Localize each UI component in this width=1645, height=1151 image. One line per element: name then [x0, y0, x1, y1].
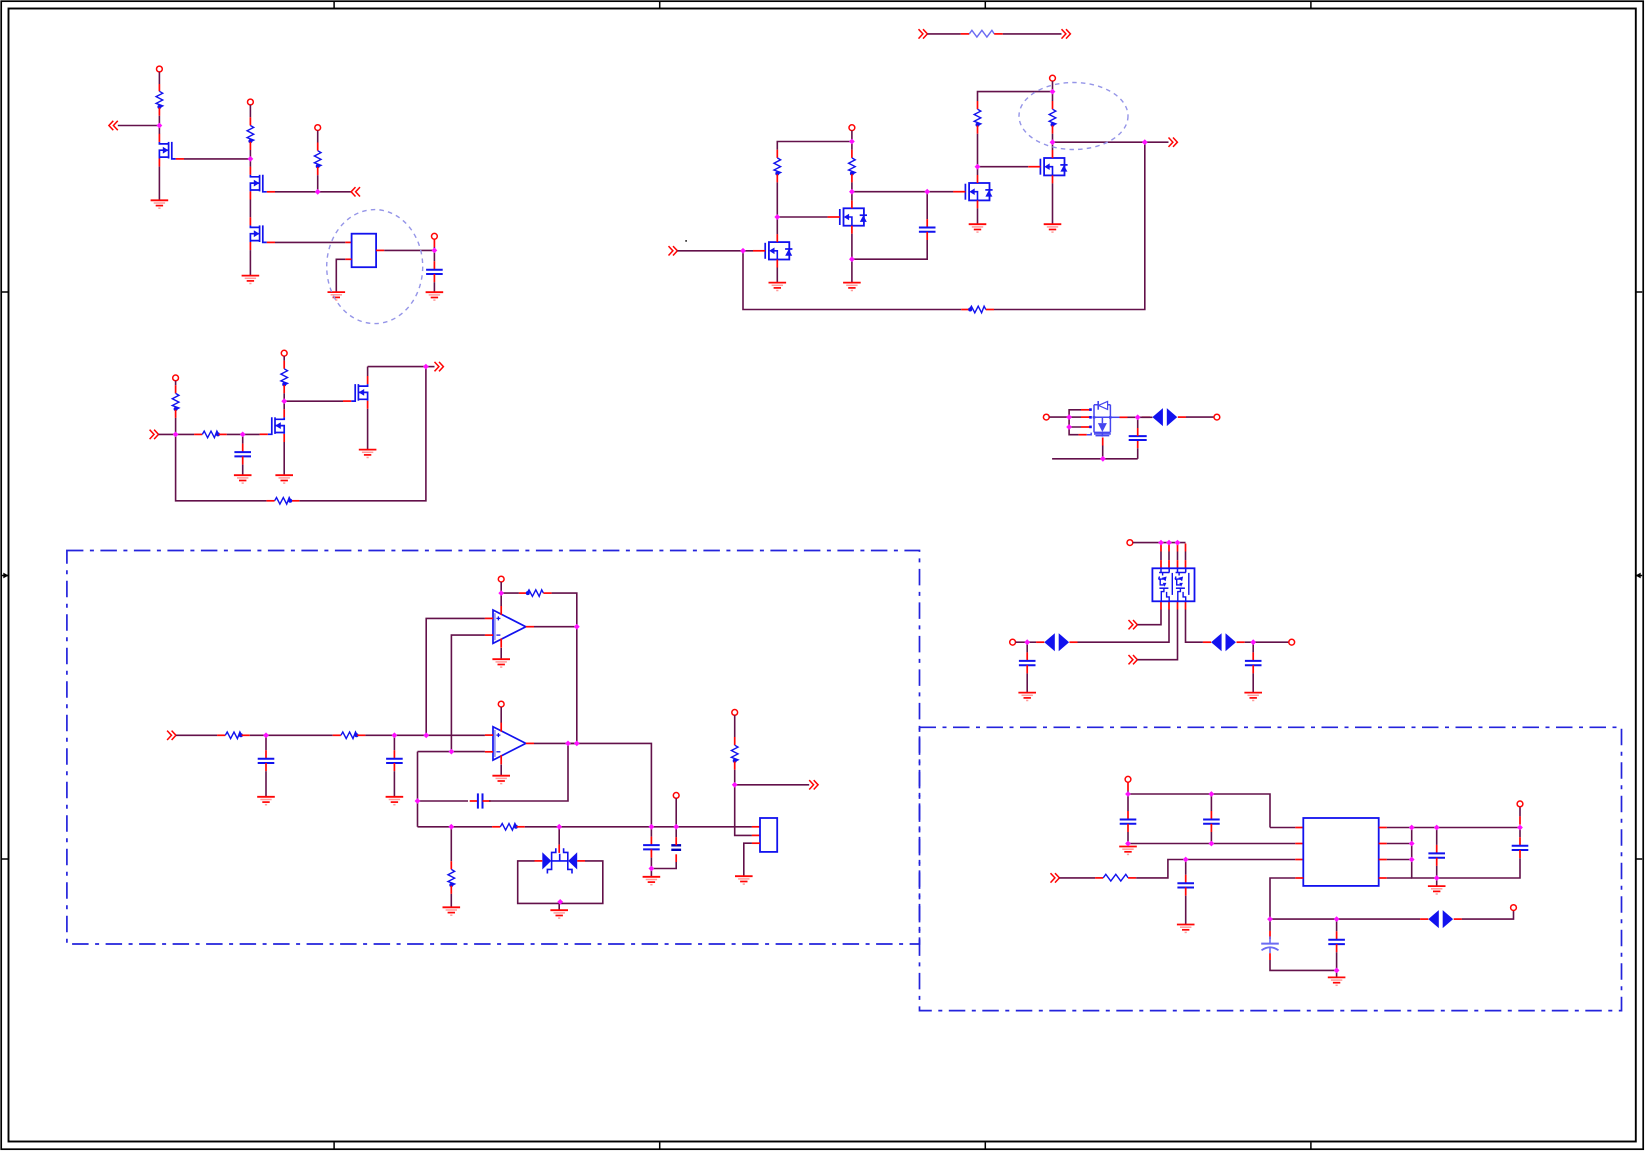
wire node B5 to ground: [851, 259, 853, 282]
wire node E4 to U3 vcc: [500, 593, 502, 606]
dash-dot box E: [67, 551, 920, 945]
ground: [443, 907, 461, 915]
wire R5 to node B4: [851, 182, 853, 191]
wire bus3: [1387, 877, 1412, 879]
wire C5 to ground: [265, 771, 267, 796]
pin stub: [291, 500, 299, 502]
junction node E12: [673, 824, 679, 830]
ground: [151, 200, 169, 208]
wire U4 gnd: [500, 765, 502, 776]
transistor Q8: [260, 409, 285, 442]
junction node G4: [1166, 540, 1172, 546]
junction node E10a: [649, 824, 655, 830]
pin stub: [1127, 824, 1129, 832]
wire Q9 source to ground: [367, 409, 369, 450]
pin stub: [194, 433, 202, 435]
ground: [492, 776, 510, 784]
junction node F5: [1334, 916, 1340, 922]
wire C1 to ground: [433, 282, 435, 292]
pin stub: [1137, 440, 1139, 448]
wire node G2 to port P13: [1253, 641, 1289, 643]
pin stub: [483, 800, 491, 802]
resistor R13: [225, 732, 243, 739]
wire D4 to node G1: [1027, 641, 1036, 643]
port chevron IN6: [1129, 620, 1138, 629]
wire R19 to U6 pin L3: [1136, 860, 1295, 878]
wire C7 to node E7: [489, 743, 577, 801]
U7 bottom pin stubs: [1161, 601, 1186, 609]
wire C15b to node F9: [1437, 858, 1520, 878]
pin stub: [961, 33, 970, 35]
wire Q6 source to ground: [977, 208, 979, 224]
junction node E9: [556, 824, 562, 830]
pin stub: [1269, 931, 1271, 939]
wire to U6 pin L1: [1270, 827, 1295, 829]
pin stub: [926, 232, 928, 240]
wire C16 to ground: [1026, 673, 1028, 692]
ground: [386, 797, 404, 805]
junction node E8: [448, 824, 454, 830]
port P14: [498, 576, 504, 582]
wire zener loop right: [559, 861, 603, 904]
wire node E10 to C9 bottom: [651, 862, 676, 869]
junction node C2: [240, 432, 246, 438]
ground: [735, 876, 753, 884]
wire Q2 source to Q3 drain: [249, 200, 251, 218]
ground: [275, 475, 293, 483]
wire IN5 to R20: [927, 33, 960, 35]
wire P9 to node D1: [1049, 416, 1069, 418]
wire C11 top: [1210, 794, 1212, 811]
wire node B9 to Q7 drain: [1052, 142, 1054, 150]
wire R18 to node E11: [734, 770, 736, 785]
resistor R14: [341, 732, 359, 739]
wire C2 top lead: [926, 192, 928, 219]
junction node E5: [574, 624, 580, 630]
port chevron IN5: [919, 29, 928, 38]
dash-dot box F: [920, 727, 1622, 1010]
ground: [1244, 693, 1262, 701]
ground: [234, 475, 252, 483]
wire C17 to ground: [1252, 673, 1254, 692]
junction node F8: [1517, 825, 1523, 831]
port chevron IN9: [1051, 873, 1060, 882]
wire node C1 to R10: [176, 433, 195, 435]
transistor Q9: [343, 376, 368, 409]
wire R11 to node C3n: [283, 393, 285, 401]
capacitor C12: [1177, 883, 1194, 887]
wire C12 to ground: [1185, 896, 1187, 925]
junction node B7: [1050, 89, 1056, 95]
junction node A4: [432, 248, 438, 254]
ground: [769, 283, 787, 291]
diode pair D4: [1044, 633, 1069, 651]
wire loop lower b: [1069, 427, 1079, 435]
pin stub: [249, 117, 251, 125]
port P4: [432, 233, 438, 239]
resistor R20: [969, 30, 994, 37]
junction node D2: [1100, 456, 1106, 462]
wire R14 to node E2: [365, 734, 394, 736]
transistor Q3: [250, 217, 275, 250]
pin stub: [1210, 824, 1212, 832]
resistor R7: [1049, 109, 1056, 127]
zener pair D2: [542, 848, 577, 873]
capacitor C9: [671, 845, 681, 850]
junction node E13: [557, 899, 563, 905]
wire P3 to R3: [317, 131, 319, 143]
resistor R15: [526, 590, 544, 597]
U6 right pin stubs: [1379, 828, 1387, 879]
port chevron IN1: [109, 121, 118, 130]
wire node B7 to R6 branch: [978, 92, 1053, 101]
op-amp U4: [485, 722, 534, 764]
wire node F5 to D3: [1337, 918, 1421, 920]
wire node E6 segment: [418, 751, 485, 753]
capacitor C16b: [1512, 846, 1529, 850]
pin stub: [242, 456, 244, 464]
wire P8 to R11: [283, 356, 285, 361]
wire node B1 down to bottom rail: [743, 251, 961, 310]
junction node E4: [498, 590, 504, 596]
ground: [1328, 977, 1346, 985]
resistor R18: [731, 745, 738, 763]
junction node F7a: [1409, 825, 1415, 831]
wire Q3 gate to U1 pin1: [275, 241, 345, 243]
port P15: [498, 701, 504, 707]
resistor R3: [314, 151, 321, 169]
pin stub: [1069, 641, 1077, 643]
pin stub: [1127, 782, 1129, 790]
wire R10 to node C2: [227, 433, 243, 435]
U2 pin pads: [1089, 408, 1092, 428]
junction node D4: [1135, 414, 1141, 420]
pin stub: [1420, 918, 1428, 920]
wire Q1 source to ground: [158, 167, 160, 200]
capacitor C16: [1019, 661, 1036, 665]
resistor R19: [1103, 874, 1128, 881]
wire node E4 to R15: [501, 592, 519, 594]
pin stub: [1137, 428, 1139, 436]
port P11: [1127, 540, 1133, 546]
wire C9 top to main rail: [675, 827, 677, 837]
pin stub: [470, 800, 478, 802]
wire Q7 source to ground: [1052, 183, 1054, 224]
IC U2 protection device: [1087, 401, 1112, 437]
wire IN1 to node A1: [118, 125, 160, 127]
pin stub: [266, 500, 274, 502]
wire main rail3: [525, 826, 752, 828]
port P7: [173, 375, 179, 381]
pin stub U6 pin L3: [1295, 859, 1303, 861]
wire node G2 to C17: [1252, 642, 1254, 652]
wire U7 pin2 to left rail: [1078, 610, 1170, 643]
pin stub: [393, 750, 395, 758]
pin stub: [1237, 641, 1245, 643]
diode pair D5: [1211, 633, 1236, 651]
junction node F1b: [1209, 791, 1215, 797]
wire C8 top: [650, 827, 652, 837]
pin stub: [1252, 665, 1254, 673]
junction node B6: [1142, 139, 1148, 145]
wire D5 to node G2: [1245, 641, 1254, 643]
junction node B4b: [924, 189, 930, 195]
pin stub: [265, 750, 267, 758]
wire node E9 to zener tap: [558, 827, 560, 845]
wire R2 to node A2: [249, 150, 251, 159]
pin stub: [175, 410, 177, 418]
wire C4 to node D4: [1137, 417, 1139, 428]
wire bottom rail to node C1: [176, 434, 267, 500]
wire node C3n to Q9 gate: [284, 400, 343, 402]
junction node D1b: [1066, 424, 1072, 430]
pin stub U6 pin L4: [1295, 877, 1303, 879]
junction node F7c: [1409, 857, 1415, 863]
wire node F7 to C15a: [1436, 828, 1438, 845]
wire Q3 source to ground: [249, 250, 251, 275]
capacitor C7: [478, 793, 483, 808]
wire U3 gnd: [500, 648, 502, 659]
wire R7 to node B9: [1052, 134, 1054, 143]
wire node D3 up to C4: [1137, 448, 1139, 459]
resistor R8: [968, 306, 986, 313]
pin stub: [1269, 953, 1271, 960]
pin stub: [345, 241, 351, 243]
ground: [550, 910, 568, 918]
wire U6 pin L4 to node F4: [1270, 878, 1295, 919]
port P3: [315, 125, 321, 131]
pin stub left: [535, 860, 543, 862]
dashed ellipse highlight A: [327, 210, 423, 324]
wire P18 to node F1: [1127, 790, 1129, 794]
port P2: [248, 99, 254, 105]
wire bus vertical: [1412, 828, 1437, 879]
wire node E11 to OUT4: [735, 784, 810, 786]
pin stub: [1178, 416, 1186, 418]
resistor R10: [202, 431, 220, 438]
wire Q1 gate to node A2: [184, 158, 250, 160]
wire node B2 to R5: [851, 142, 853, 150]
junction node E7: [574, 741, 580, 747]
wire U1 out to node A4: [384, 249, 434, 251]
pin stub: [1436, 858, 1438, 866]
pin stub: [1095, 877, 1103, 879]
wire zener tap to ground: [558, 903, 560, 910]
wire Q9 drain to top rail: [367, 367, 369, 376]
pin stub: [1336, 931, 1338, 939]
wire node E2 to C6: [393, 735, 395, 750]
wire node E2 to node E3: [394, 734, 426, 736]
pin stub: [242, 444, 244, 452]
resistor R9: [172, 393, 179, 411]
pin stub: [1185, 888, 1187, 896]
port P6: [1050, 75, 1056, 81]
pin stub: [986, 309, 994, 311]
wire U5 pin3 to ground: [744, 843, 752, 876]
pin stub: [357, 734, 365, 736]
wire node F4 to C13: [1269, 919, 1271, 931]
resistor R11: [281, 369, 288, 387]
pin stub: [219, 433, 227, 435]
wire C6 to ground: [393, 771, 395, 796]
pin stub: [1026, 665, 1028, 673]
wire node B3 to Q5 gate: [777, 216, 827, 218]
pin stub: [1336, 944, 1338, 952]
junction node E2: [392, 732, 398, 738]
pin stub: [158, 108, 160, 116]
pin stub U1 out: [376, 249, 384, 251]
junction node F1: [1125, 791, 1131, 797]
resistor R17: [448, 869, 455, 887]
junction node A3: [315, 189, 321, 195]
pin stub: [543, 592, 551, 594]
ground: [643, 877, 661, 885]
pin stub: [249, 142, 251, 150]
wire node F1 to C10: [1127, 794, 1129, 811]
diode pair D1: [1152, 408, 1177, 426]
wire P2 to R2: [249, 105, 251, 117]
pin stub: [675, 854, 677, 862]
wire node F8 up: [1519, 807, 1521, 817]
pin stub: [393, 763, 395, 771]
wire node C4 down to bottom rail: [299, 367, 426, 501]
pin stub: [333, 734, 341, 736]
pin stub: [450, 886, 452, 894]
junction node E6b: [415, 798, 421, 804]
pin stub U5 pin3: [752, 842, 760, 844]
wire P6 to node B7: [1052, 81, 1054, 92]
pin stub: [734, 762, 736, 770]
port P18: [1125, 776, 1131, 782]
wire U3 out to node E5: [534, 626, 577, 628]
ground: [359, 450, 377, 458]
pin stub U5 pin2: [752, 834, 760, 836]
wire node E10 to ground: [650, 869, 652, 877]
wire node G1 to C16: [1026, 642, 1028, 652]
wire node C2 to C3: [242, 434, 244, 443]
transistor Q1: [159, 134, 184, 167]
ground: [1044, 224, 1062, 232]
junction node B9: [1050, 139, 1056, 145]
wire node A1 to Q1 drain: [158, 126, 160, 135]
port P16: [673, 793, 679, 799]
pin stub: [450, 861, 452, 869]
junction node B1: [740, 248, 746, 254]
pin stub: [1519, 850, 1521, 858]
wire node F6 to ground: [1336, 970, 1338, 977]
ground: [969, 224, 987, 232]
pin stub: [242, 734, 250, 736]
wire bottom rail D: [1052, 458, 1138, 460]
pin stub: [1519, 816, 1521, 824]
port chevron IN4: [150, 430, 159, 439]
wire C14 branch: [1336, 919, 1338, 931]
pin stub U5 pin1: [752, 826, 760, 828]
pin stub: [1142, 416, 1150, 418]
wire R3 to node A3: [317, 175, 319, 192]
port chevron OUT2: [435, 362, 444, 371]
wire P16 to main rail: [675, 798, 677, 827]
stray dot artifact: [685, 240, 687, 242]
port chevron OUT3: [1062, 29, 1071, 38]
pin stub: [1079, 434, 1087, 436]
wire IN7 to U7 pin3: [1137, 610, 1177, 660]
wire node F1 rail: [1128, 794, 1270, 828]
junction node G5: [1175, 540, 1181, 546]
pin stub: [851, 174, 853, 182]
wire loop lower a: [1069, 417, 1081, 427]
capacitor C10: [1120, 820, 1137, 824]
pin stub: [1252, 652, 1254, 660]
wire P15 to U4 vcc: [500, 707, 502, 723]
junction node G1: [1024, 639, 1030, 645]
IC U5: [760, 818, 777, 852]
port P19: [1511, 905, 1517, 911]
transistor Q5: [828, 200, 867, 233]
junction node E10: [649, 866, 655, 872]
wire IN8 to R13: [176, 734, 217, 736]
pin stub: [175, 385, 177, 393]
IC U7 dual mosfet pack: [1152, 568, 1194, 601]
wire Q5 source to node B5: [851, 234, 853, 260]
wire node D1 to U2 pin2: [1069, 416, 1081, 418]
pin stub: [283, 361, 285, 369]
ground: [843, 283, 861, 291]
wire node F9 to ground: [1436, 878, 1438, 886]
wire R13 to node E1: [250, 734, 266, 736]
pin stub: [1203, 641, 1211, 643]
wire U3 -in loop: [451, 635, 485, 752]
wire IN3 to node B1: [677, 250, 753, 252]
capacitor C14: [1328, 940, 1345, 944]
wire C3 to ground: [242, 465, 244, 475]
port P12: [1010, 639, 1016, 645]
wire U7 pin4 to right rail: [1186, 610, 1203, 643]
resistor R1: [156, 91, 163, 109]
junction node F7: [1434, 825, 1440, 831]
wire C13 to bottom: [1270, 960, 1337, 970]
junction node B3: [774, 214, 780, 220]
junction node F2: [1125, 841, 1131, 847]
polarized capacitor C13: [1261, 936, 1279, 953]
wire node F3 to C12: [1185, 860, 1187, 875]
pin stub: [317, 167, 319, 175]
pin stub: [519, 592, 527, 594]
wire zener loop left: [518, 861, 560, 904]
resistor R6: [974, 109, 981, 127]
pin stub: [1454, 918, 1462, 920]
wire node B4 to C2 branch: [852, 191, 927, 193]
U7 top pin stubs: [1161, 544, 1186, 569]
ground: [492, 659, 510, 667]
junction node F9: [1434, 875, 1440, 881]
wire node B4 to Q5 drain: [851, 192, 853, 201]
pin stub: [994, 33, 1003, 35]
wire node A2 to Q2 drain: [249, 159, 251, 167]
wire U6 R1 to node F7: [1387, 827, 1437, 829]
pin stub: [1052, 126, 1054, 134]
port P1: [157, 66, 163, 72]
pin stub: [977, 126, 979, 134]
wire node F2 to U6 pin L2: [1128, 843, 1295, 845]
wire Q8 drain to node C3n: [283, 401, 285, 409]
wire P11 to U7 top rail: [1133, 542, 1186, 544]
resistor R12: [275, 498, 293, 505]
resistor R16: [500, 824, 518, 831]
junction node E3: [423, 732, 429, 738]
wire bus2: [1387, 859, 1412, 861]
port P5: [849, 125, 855, 131]
